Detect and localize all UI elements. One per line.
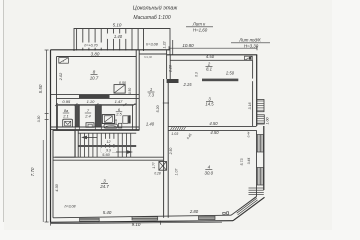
svg-text:0.30: 0.30 xyxy=(37,116,41,123)
room 7 walls xyxy=(79,105,95,127)
door jamb tick corridor wall xyxy=(163,102,169,104)
svg-text:1.00: 1.00 xyxy=(265,118,269,125)
svg-text:0.50: 0.50 xyxy=(128,88,132,94)
washbasin fixture xyxy=(63,119,73,127)
svg-text:4.50: 4.50 xyxy=(210,130,219,135)
svg-text:1.22: 1.22 xyxy=(162,42,166,49)
vent symbol room 8 corner xyxy=(59,58,69,64)
wall 7/6 xyxy=(95,104,101,127)
svg-text:1.07: 1.07 xyxy=(175,169,179,176)
vent shaft box 0.50 xyxy=(114,85,125,94)
svg-text:2.28: 2.28 xyxy=(169,65,173,73)
annex divider wall xyxy=(143,29,145,52)
stair arrow down (right) xyxy=(112,151,128,153)
svg-text:5.50: 5.50 xyxy=(38,84,43,93)
svg-text:12: 12 xyxy=(107,140,111,144)
svg-text:9.9: 9.9 xyxy=(106,148,111,152)
door jamb ticks on wet room wall xyxy=(57,126,59,130)
svg-text:2.80: 2.80 xyxy=(189,209,199,214)
stair treads upper flight xyxy=(80,133,130,145)
chimney pilaster right 2 (hatched) xyxy=(257,115,265,124)
svg-text:10.80: 10.80 xyxy=(182,43,194,48)
svg-text:Н=1,60: Н=1,60 xyxy=(193,28,208,33)
room 1 top wall inner xyxy=(139,53,166,55)
window bottom wall 3 xyxy=(199,216,216,219)
wall between sections upper xyxy=(166,50,168,79)
svg-text:h=+0,70: h=+0,70 xyxy=(84,44,97,48)
svg-text:2.5: 2.5 xyxy=(115,112,122,117)
outer wall: top of right section xyxy=(167,54,257,56)
outer wall: right upper xyxy=(256,55,258,126)
svg-text:30.0: 30.0 xyxy=(205,170,214,175)
svg-text:•: • xyxy=(63,59,64,63)
room 2 bottom wall dark segment left xyxy=(167,79,179,83)
dim line 10.80 xyxy=(169,47,257,49)
svg-text:3.80: 3.80 xyxy=(91,52,100,57)
svg-text:2.4: 2.4 xyxy=(84,113,91,118)
svg-text:5.60: 5.60 xyxy=(102,153,110,157)
annex stair treads xyxy=(77,29,139,51)
room 8 right wall xyxy=(135,50,137,131)
window right wall lower (hatched) xyxy=(258,168,264,186)
svg-text:0.95: 0.95 xyxy=(62,99,71,104)
svg-text:0.50: 0.50 xyxy=(119,81,126,85)
svg-text:2.15: 2.15 xyxy=(183,82,193,87)
svg-text:5.73: 5.73 xyxy=(240,159,244,166)
svg-text:2.50: 2.50 xyxy=(169,148,173,156)
chamfer corner wall xyxy=(233,197,265,220)
tiny corner marks xyxy=(223,212,225,214)
outer wall: top of left section xyxy=(51,49,171,51)
svg-text:5.20: 5.20 xyxy=(156,106,160,113)
room 2 bottom wall right part xyxy=(202,79,238,82)
svg-text:0.44: 0.44 xyxy=(246,131,250,137)
svg-text:0.3: 0.3 xyxy=(195,72,199,77)
svg-text:Лит под/К: Лит под/К xyxy=(238,38,261,43)
svg-text:5.10: 5.10 xyxy=(113,22,122,27)
svg-text:3.16: 3.16 xyxy=(248,102,252,109)
dim line small rooms xyxy=(57,104,137,106)
svg-text:1.10: 1.10 xyxy=(87,99,96,104)
svg-text:8.1: 8.1 xyxy=(206,67,212,72)
svg-text:1.40: 1.40 xyxy=(114,34,123,39)
hatched window in that wall xyxy=(170,127,185,131)
stair treads lower flight xyxy=(80,147,130,158)
small box fixture xyxy=(119,123,122,128)
wet rooms bottom wall xyxy=(51,126,140,128)
svg-text:5.40: 5.40 xyxy=(103,210,112,215)
outer wall: bottom xyxy=(51,221,234,223)
svg-text:1.40: 1.40 xyxy=(146,121,155,126)
svg-text:14.5: 14.5 xyxy=(205,102,214,107)
corner block hatched xyxy=(249,187,264,189)
svg-text:0.44: 0.44 xyxy=(247,158,251,165)
annex Lit k outline xyxy=(74,29,170,55)
outer wall: right lower xyxy=(263,126,265,190)
svg-text:24.7: 24.7 xyxy=(99,184,109,189)
stair mid landing line xyxy=(78,144,136,146)
svg-text:2.1: 2.1 xyxy=(62,113,68,118)
window bottom wall 1 xyxy=(80,218,100,221)
wall between 14.5 and 30.0 xyxy=(168,126,256,128)
chimney pilaster right 1 (hatched) xyxy=(257,100,264,112)
room 8 top inner wall xyxy=(57,56,137,58)
bath fixture xyxy=(104,124,118,128)
svg-text:7.70: 7.70 xyxy=(30,167,35,176)
svg-text:2.50: 2.50 xyxy=(225,71,235,76)
corridor right wall / room3 right wall xyxy=(163,79,165,218)
svg-text:Цокольный этаж: Цокольный этаж xyxy=(133,5,178,12)
svg-text:h=1,60: h=1,60 xyxy=(144,55,153,59)
svg-text:7.3: 7.3 xyxy=(148,93,154,98)
svg-text:Н=3,30: Н=3,30 xyxy=(244,44,259,49)
room 8a walls xyxy=(58,105,76,127)
svg-text:h=3,08: h=3,08 xyxy=(64,205,75,209)
svg-text:4.30: 4.30 xyxy=(55,183,59,191)
scan left edge line xyxy=(3,0,5,222)
stair text backing xyxy=(102,139,115,144)
svg-text:Масштаб 1:100: Масштаб 1:100 xyxy=(133,15,170,21)
svg-text:10.7: 10.7 xyxy=(90,75,99,80)
left vertical dim line xyxy=(46,50,48,222)
svg-text:0.28: 0.28 xyxy=(154,172,160,176)
svg-text:9.10: 9.10 xyxy=(132,222,141,227)
svg-text:0.30: 0.30 xyxy=(114,118,118,124)
svg-text:1: 1 xyxy=(150,87,152,92)
stair arrow up (left) xyxy=(83,136,97,138)
stairwell top wall xyxy=(53,129,139,131)
svg-text:h=3,08: h=3,08 xyxy=(146,42,159,46)
white backing for tread texts xyxy=(107,34,129,39)
svg-text:4.50: 4.50 xyxy=(206,54,215,59)
window right wall upper (hatched) xyxy=(258,135,264,153)
window on chamfer (hatched) xyxy=(236,197,259,217)
vent symbol top-right (Ba) xyxy=(245,56,253,60)
outer wall: left xyxy=(50,50,52,223)
bottom dim line 9.10 xyxy=(51,222,223,223)
stairwell left wall xyxy=(74,130,76,157)
annex right wall second line xyxy=(172,40,174,55)
boiler fixture square with diagonal xyxy=(102,115,114,124)
wall 8a/7 xyxy=(75,104,79,127)
dark heater bar xyxy=(128,115,130,123)
svg-text:4.50: 4.50 xyxy=(209,121,218,126)
svg-text:1.03: 1.03 xyxy=(171,132,178,136)
equipment box xyxy=(123,116,128,124)
svg-text:1.77: 1.77 xyxy=(152,162,156,168)
window bottom wall 2 xyxy=(132,217,158,220)
room 6 walls xyxy=(101,105,132,127)
chimney box with cross xyxy=(159,162,167,171)
toilet fixture xyxy=(86,123,94,128)
svg-text:1.47: 1.47 xyxy=(115,99,124,104)
svg-text:2.02: 2.02 xyxy=(59,72,63,81)
room 8 bottom wall xyxy=(51,94,140,96)
stairwell bottom wall xyxy=(55,156,164,158)
closet left of stairwell xyxy=(53,130,75,157)
svg-text:Лит к: Лит к xyxy=(192,22,206,27)
